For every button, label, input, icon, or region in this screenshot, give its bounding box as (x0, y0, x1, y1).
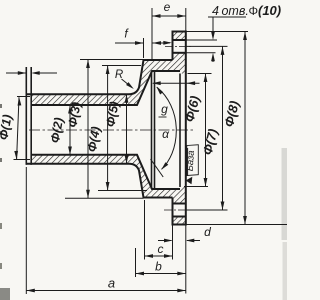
svg-text:e: e (164, 0, 171, 14)
svg-text:b: b (155, 260, 162, 274)
svg-text:c: c (158, 242, 164, 256)
svg-text:4 отв.: 4 отв. (212, 4, 249, 18)
svg-text:База: База (185, 150, 197, 172)
svg-text:a: a (108, 276, 115, 291)
svg-text:Φ: Φ (249, 4, 259, 18)
svg-text:d: d (204, 225, 211, 239)
svg-text:α: α (162, 127, 170, 141)
svg-text:g: g (161, 102, 168, 116)
svg-text:(10): (10) (258, 3, 281, 18)
